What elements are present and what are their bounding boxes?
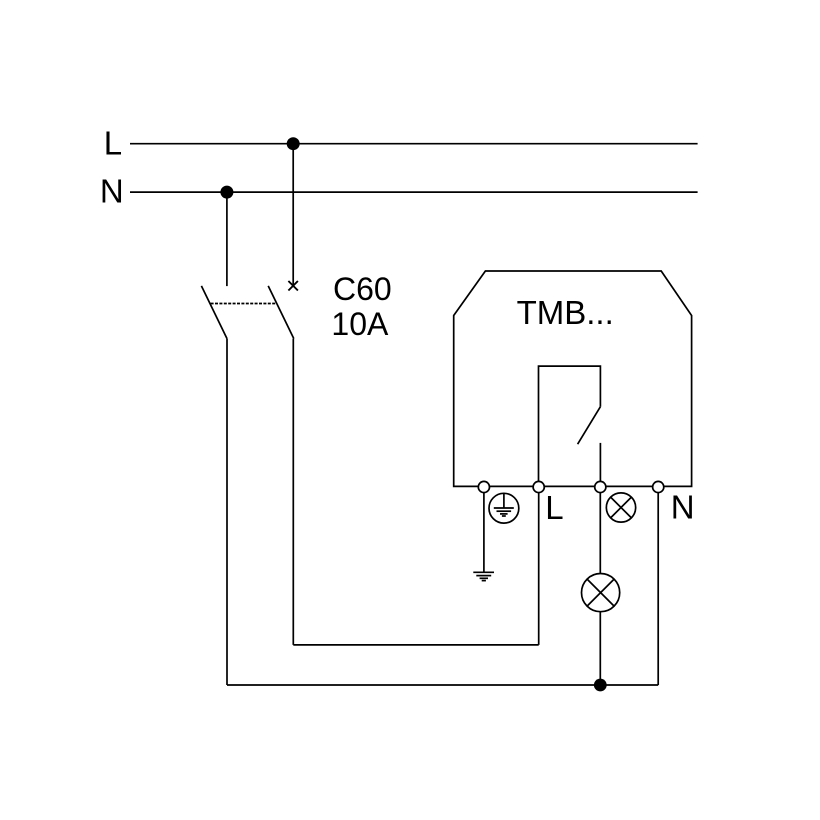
earth ground symbol bar 3 <box>480 577 488 579</box>
svg-text:N: N <box>671 489 695 526</box>
wire L supply line <box>130 143 698 145</box>
earth ground symbol bar 4 <box>482 580 486 582</box>
svg-text:L: L <box>545 489 563 526</box>
svg-text:10A: 10A <box>331 306 389 342</box>
earth ground symbol bar 1 <box>473 571 494 573</box>
terminal L <box>533 481 544 492</box>
breaker Q1 pole 2 blade <box>268 286 294 339</box>
svg-text:N: N <box>100 173 124 210</box>
svg-text:L: L <box>104 124 122 161</box>
protective earth symbol bar 1 <box>494 507 514 509</box>
protective earth symbol bar 3 <box>500 513 508 515</box>
breaker mechanical link (dashed) <box>211 303 277 305</box>
wire breaker pole 2 down <box>292 339 294 645</box>
svg-text:TMB...: TMB... <box>517 294 614 331</box>
junction on N line <box>220 186 233 199</box>
junction on L line <box>287 137 300 150</box>
device TMB outline <box>454 271 692 486</box>
wire lamp down to bottom node <box>599 612 601 685</box>
breaker Q1 pole 1 blade <box>201 286 227 339</box>
protective earth symbol bar 2 <box>497 510 512 512</box>
wire bottom return (horizontal) <box>227 684 658 686</box>
protective earth symbol bar 4 <box>502 515 506 517</box>
protective earth symbol circle <box>489 493 519 523</box>
svg-text:C60: C60 <box>333 271 392 307</box>
lamp symbol at terminal cross <box>611 497 632 518</box>
wire L junction down to breaker pole 2 <box>292 144 294 286</box>
terminal PE <box>478 481 489 492</box>
wire breaker pole 1 down <box>226 339 228 685</box>
internal switch lower contact wire <box>599 443 601 487</box>
lamp E1 cross <box>587 579 614 606</box>
junction bottom node <box>594 679 607 692</box>
wire N junction down to breaker pole 1 <box>226 192 228 286</box>
wire earth terminal down <box>483 487 485 572</box>
protective earth symbol stem <box>503 494 505 509</box>
earth ground symbol bar 2 <box>476 575 491 577</box>
wire pole 2 to L terminal (horizontal) <box>293 644 538 646</box>
wire up to L terminal <box>538 487 540 645</box>
internal switch blade <box>578 407 601 445</box>
wire lamp terminal down to lamp <box>599 487 601 574</box>
wire N terminal down <box>657 487 659 685</box>
terminal lamp output <box>595 481 606 492</box>
terminal N <box>653 481 664 492</box>
lamp symbol at terminal <box>606 493 635 522</box>
breaker operating marker X <box>288 281 298 291</box>
wire N supply line <box>130 191 698 193</box>
internal switch left leg <box>539 366 601 487</box>
lamp E1 circle <box>582 574 620 612</box>
